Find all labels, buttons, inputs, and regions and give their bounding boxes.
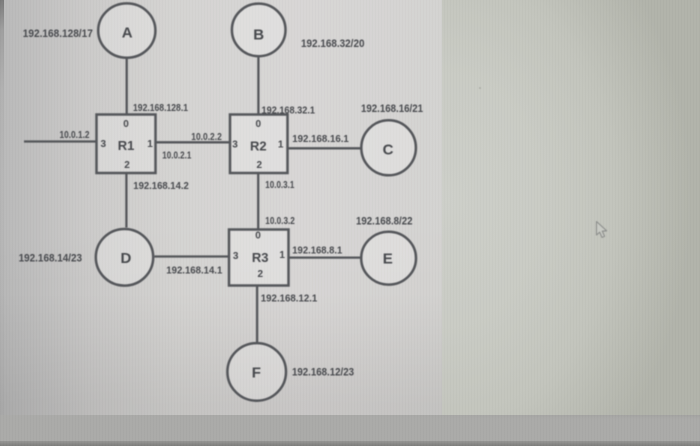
svg-text:2: 2 [258, 269, 264, 280]
svg-text:10.0.2.1: 10.0.2.1 [162, 150, 191, 161]
svg-text:192.168.32.1: 192.168.32.1 [262, 105, 316, 116]
svg-text:2: 2 [257, 160, 263, 171]
svg-text:0: 0 [123, 119, 129, 130]
svg-text:192.168.14/23: 192.168.14/23 [19, 253, 83, 265]
svg-text:1: 1 [278, 139, 284, 150]
svg-text:192.168.16.1: 192.168.16.1 [292, 134, 349, 145]
svg-text:10.0.3.1: 10.0.3.1 [265, 180, 294, 191]
svg-text:192.168.14.1: 192.168.14.1 [166, 266, 222, 277]
svg-text:3: 3 [233, 251, 239, 262]
svg-text:192.168.128/17: 192.168.128/17 [23, 28, 93, 40]
svg-text:0: 0 [256, 119, 262, 130]
svg-text:192.168.32/20: 192.168.32/20 [301, 38, 365, 50]
svg-text:192.168.8.1: 192.168.8.1 [292, 245, 342, 256]
svg-text:192.168.8/22: 192.168.8/22 [356, 216, 413, 228]
svg-text:R1: R1 [118, 138, 135, 153]
svg-text:192.168.12.1: 192.168.12.1 [261, 294, 318, 305]
svg-text:D: D [120, 250, 131, 267]
svg-text:192.168.128.1: 192.168.128.1 [133, 103, 188, 114]
svg-text:B: B [253, 26, 264, 43]
svg-text:3: 3 [232, 139, 238, 150]
svg-text:0: 0 [255, 231, 261, 242]
svg-text:2: 2 [124, 160, 130, 171]
svg-text:192.168.16/21: 192.168.16/21 [361, 103, 423, 115]
svg-text:10.0.1.2: 10.0.1.2 [60, 130, 90, 141]
svg-text:R3: R3 [252, 250, 269, 265]
svg-text:1: 1 [147, 139, 153, 150]
svg-text:E: E [383, 251, 393, 268]
svg-text:A: A [122, 25, 133, 42]
svg-text:1: 1 [279, 250, 285, 261]
svg-text:192.168.14.2: 192.168.14.2 [133, 181, 189, 192]
svg-text:C: C [383, 142, 394, 159]
svg-text:R2: R2 [250, 138, 267, 153]
svg-text:3: 3 [101, 139, 107, 150]
svg-text:10.0.3.2: 10.0.3.2 [265, 216, 295, 227]
svg-text:192.168.12/23: 192.168.12/23 [292, 367, 354, 379]
svg-text:F: F [252, 365, 261, 382]
svg-text:10.0.2.2: 10.0.2.2 [191, 132, 222, 143]
